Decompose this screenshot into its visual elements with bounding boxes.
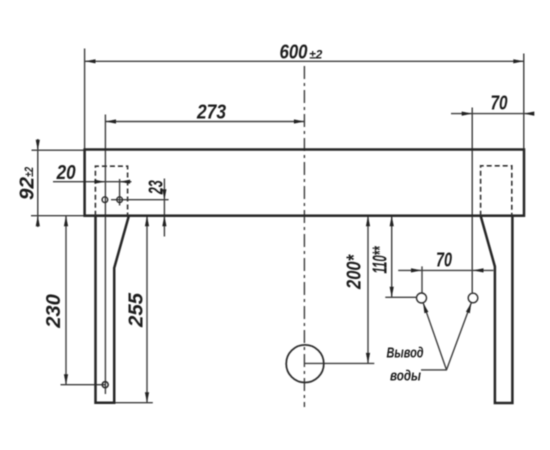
svg-text:92: 92 [17,177,39,200]
svg-text:Вывод: Вывод [387,345,424,362]
svg-text:200*: 200* [344,254,366,290]
svg-text:±2: ±2 [309,48,322,62]
svg-text:70: 70 [491,93,508,115]
svg-text:273: 273 [196,102,226,124]
svg-text:70: 70 [436,249,452,271]
svg-text:600: 600 [280,42,308,64]
svg-text:110**: 110** [370,246,392,274]
svg-text:±2: ±2 [22,167,36,177]
svg-text:20: 20 [56,162,76,184]
svg-text:воды: воды [390,368,421,385]
svg-text:230: 230 [43,294,65,329]
svg-text:23: 23 [146,180,168,195]
svg-text:255: 255 [126,292,148,328]
